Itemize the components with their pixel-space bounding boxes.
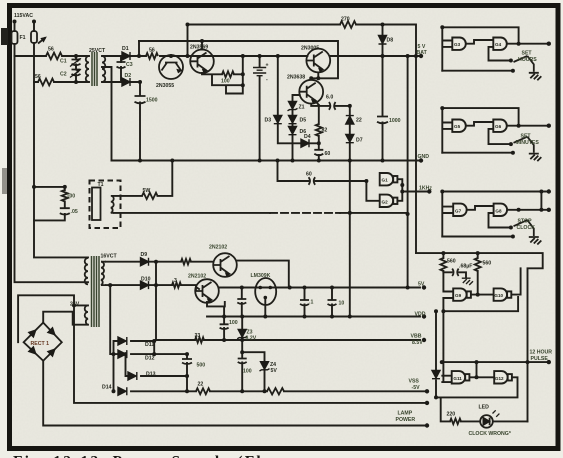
svg-text:1KHz: 1KHz	[419, 186, 432, 192]
svg-text:60: 60	[325, 151, 331, 157]
svg-text:D5: D5	[300, 118, 307, 124]
svg-text:5W: 5W	[143, 188, 151, 194]
svg-text:G12: G12	[495, 376, 504, 381]
svg-text:56: 56	[48, 47, 54, 53]
svg-text:G1: G1	[382, 178, 389, 183]
svg-text:CLOCK WRONG*: CLOCK WRONG*	[469, 431, 512, 437]
svg-text:25VCT: 25VCT	[89, 48, 106, 54]
svg-text:D8: D8	[387, 38, 394, 44]
svg-text:D2: D2	[125, 73, 132, 79]
svg-text:RECT 1: RECT 1	[31, 341, 50, 347]
svg-text:STOP: STOP	[518, 219, 533, 225]
svg-text:D7: D7	[356, 138, 363, 144]
svg-text:MINUTES: MINUTES	[516, 140, 540, 146]
svg-text:560: 560	[447, 259, 456, 265]
svg-text:100: 100	[243, 369, 252, 375]
svg-text:G2: G2	[382, 199, 389, 204]
svg-text:D1: D1	[122, 46, 129, 52]
svg-text:16VCT: 16VCT	[101, 254, 118, 260]
svg-text:SET: SET	[521, 134, 532, 140]
svg-text:G7: G7	[455, 208, 462, 213]
svg-text:10: 10	[339, 301, 345, 307]
svg-text:2N3005: 2N3005	[301, 46, 319, 52]
svg-text:C2: C2	[60, 72, 67, 78]
svg-text:LED: LED	[479, 405, 490, 411]
svg-text:SET: SET	[522, 51, 533, 57]
svg-text:-5V: -5V	[412, 385, 421, 391]
svg-text:PULSE: PULSE	[531, 356, 549, 362]
svg-text:82: 82	[322, 128, 328, 134]
svg-text:G6: G6	[495, 124, 502, 129]
svg-text:D4: D4	[304, 134, 311, 140]
svg-text:.05: .05	[71, 209, 78, 215]
svg-text:1000: 1000	[389, 118, 401, 124]
svg-text:22: 22	[198, 382, 204, 388]
svg-text:.68µF: .68µF	[459, 264, 472, 270]
svg-text:G10: G10	[494, 293, 503, 298]
svg-text:115VAC: 115VAC	[14, 13, 33, 19]
svg-text:D14: D14	[102, 385, 112, 391]
svg-text:8.5V: 8.5V	[412, 340, 423, 346]
svg-text:Z1: Z1	[299, 105, 305, 111]
svg-text:D10: D10	[141, 277, 151, 283]
svg-text:100: 100	[67, 194, 76, 200]
svg-text:LM309K: LM309K	[251, 273, 271, 279]
svg-text:12 HOUR: 12 HOUR	[530, 350, 553, 356]
svg-text:2N2102: 2N2102	[209, 245, 227, 251]
svg-text:D3: D3	[265, 118, 272, 124]
svg-text:C3: C3	[126, 62, 133, 68]
svg-text:3: 3	[174, 278, 177, 284]
svg-text:.1: .1	[309, 300, 313, 306]
svg-text:VBB: VBB	[411, 334, 422, 340]
svg-text:G4: G4	[495, 42, 502, 47]
svg-text:G5: G5	[454, 124, 461, 129]
svg-text:G11: G11	[453, 376, 462, 381]
svg-text:CLOCK: CLOCK	[517, 225, 536, 231]
svg-text:24V: 24V	[70, 302, 80, 308]
svg-text:D13: D13	[146, 372, 156, 378]
svg-text:G3: G3	[454, 42, 461, 47]
svg-text:G8: G8	[495, 208, 502, 213]
svg-text:5V: 5V	[271, 368, 278, 374]
svg-text:56: 56	[35, 74, 41, 80]
svg-text:2N3638: 2N3638	[287, 75, 305, 81]
svg-text:D12: D12	[145, 356, 155, 362]
svg-text:F1: F1	[20, 35, 26, 41]
svg-text:-: -	[266, 77, 268, 83]
svg-text:VDD: VDD	[415, 312, 426, 318]
svg-text:1500: 1500	[146, 98, 158, 104]
svg-text:D11: D11	[145, 342, 154, 348]
svg-text:56: 56	[149, 48, 155, 54]
svg-text:100: 100	[229, 320, 238, 326]
svg-text:100: 100	[221, 79, 230, 85]
svg-text:G9: G9	[455, 293, 462, 298]
svg-text:C1: C1	[60, 59, 67, 65]
svg-text:2N2102: 2N2102	[188, 274, 206, 280]
svg-text:BAT: BAT	[417, 50, 428, 56]
svg-text:LAMP: LAMP	[398, 411, 413, 417]
svg-text:HOURS: HOURS	[518, 57, 537, 63]
svg-text:60: 60	[306, 172, 312, 178]
svg-text:270: 270	[341, 17, 350, 23]
svg-text:D9: D9	[141, 252, 148, 258]
svg-text:2N3569: 2N3569	[190, 45, 208, 51]
svg-text:T1: T1	[98, 182, 104, 188]
svg-text:6.0: 6.0	[326, 95, 333, 101]
svg-text:VSS: VSS	[409, 379, 420, 385]
svg-text:5V: 5V	[418, 282, 425, 288]
svg-text:33: 33	[195, 333, 201, 339]
svg-text:GND: GND	[418, 154, 430, 160]
svg-text:Fig. 12-13. Power Supply (Fl: Fig. 12-13. Power Supply (Fl	[13, 454, 263, 458]
svg-text:560: 560	[483, 261, 492, 267]
svg-text:POWER: POWER	[396, 417, 416, 423]
svg-text:2N3055: 2N3055	[156, 83, 174, 89]
svg-text:6.2V: 6.2V	[246, 336, 257, 342]
svg-text:22: 22	[356, 118, 362, 124]
svg-text:500: 500	[197, 363, 206, 369]
svg-text:+: +	[266, 63, 269, 69]
svg-text:220: 220	[447, 412, 456, 418]
